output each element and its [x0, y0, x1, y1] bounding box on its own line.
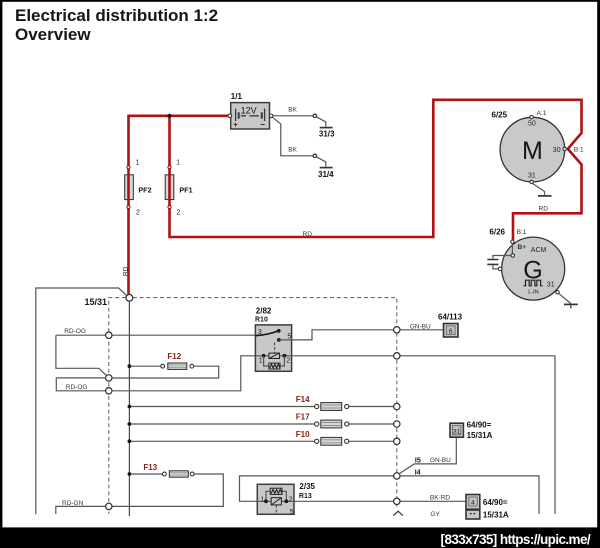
wire BK-RD (relay 2/35 pin 2 to connector 4) [294, 500, 466, 502]
fuse F13 [112, 463, 223, 506]
svg-text:PF1: PF1 [179, 185, 192, 194]
dashed border right [133, 298, 397, 509]
fuse PF1 body [165, 175, 174, 200]
svg-text:[833x735] https://upic.me/: [833x735] https://upic.me/ [441, 532, 591, 547]
svg-text:I4: I4 [415, 469, 421, 476]
dashed-line continuation chevron [393, 511, 402, 515]
svg-text:M: M [522, 137, 543, 165]
svg-text:1: 1 [260, 497, 264, 504]
svg-text:64/113: 64/113 [438, 312, 463, 321]
svg-text:50: 50 [528, 121, 536, 128]
connector circle RD-OG upper [106, 332, 112, 338]
svg-text:6: 6 [449, 328, 453, 335]
svg-text:2: 2 [289, 497, 293, 504]
connector circle B [106, 388, 112, 394]
svg-text:1/1: 1/1 [231, 92, 243, 101]
switch contact 31/4 [313, 154, 316, 157]
svg-text:1: 1 [136, 160, 140, 167]
wire main distribution rail (from node 15/31 down) [128, 301, 130, 516]
frame left [0, 0, 2, 528]
wire left rail [36, 288, 127, 514]
svg-text:BK-RD: BK-RD [430, 494, 451, 501]
svg-text:2: 2 [136, 210, 140, 217]
ground 31/4 [320, 167, 333, 169]
switch contact 31/3 [313, 114, 316, 117]
motor 6/25 [492, 110, 585, 183]
svg-text:2/82: 2/82 [256, 307, 272, 316]
svg-text:31/4: 31/4 [318, 170, 334, 179]
wire relay 2/82 pin 5 to connector 64/113 (GN-BU) [279, 330, 444, 340]
connector 64/113 pin 6 [438, 312, 463, 337]
fuse F17 [127, 413, 399, 428]
bottom watermark bar [0, 527, 600, 548]
fuse PF1 [168, 160, 193, 217]
svg-text:B:1: B:1 [574, 147, 584, 154]
connector circle I4 [394, 473, 400, 479]
svg-text:2: 2 [177, 210, 181, 217]
junction battery feed split [167, 114, 171, 118]
svg-text:Overview: Overview [15, 25, 91, 44]
svg-text:RD-OG: RD-OG [66, 384, 88, 391]
generator 6/26 [489, 228, 564, 300]
dashed border left (central electronic module boundary) [109, 298, 126, 514]
svg-text:RD: RD [539, 205, 549, 212]
svg-text:30: 30 [553, 147, 561, 154]
ground 31/3 [320, 127, 333, 129]
wire RD-OG (to relay 2/82 pin 3) [56, 334, 256, 336]
connector circle RD-GN [106, 503, 112, 509]
svg-text:R10: R10 [255, 317, 268, 324]
svg-text:L-IN: L-IN [528, 290, 538, 296]
svg-text:B:1: B:1 [517, 229, 527, 236]
svg-text:F14: F14 [296, 395, 310, 404]
svg-text:B+: B+ [518, 244, 527, 251]
svg-text:ACM: ACM [531, 247, 547, 254]
wire RD battery feed (left branch to node 15/31) [129, 116, 230, 295]
svg-text:R13: R13 [299, 493, 312, 500]
wire loop (outside module, lower RD-OG) [56, 378, 105, 391]
frame top [0, 0, 600, 2]
connector circle BK-RD [394, 498, 400, 504]
svg-text:15/31: 15/31 [85, 297, 108, 307]
svg-text:1: 1 [176, 160, 180, 167]
node 15/31 [126, 294, 133, 301]
connector circle on pin 2 feed [394, 353, 400, 359]
svg-text:64/90=: 64/90= [483, 498, 508, 507]
fuse F12 [112, 352, 219, 378]
ground at motor pin 31 [533, 184, 545, 195]
svg-text:2/35: 2/35 [299, 482, 315, 491]
connector circle A [106, 375, 112, 381]
svg-text:Electrical distribution 1:2: Electrical distribution 1:2 [15, 6, 218, 25]
svg-text:2: 2 [286, 358, 290, 365]
battery 1/1 [228, 92, 273, 129]
connector 64/90= 15/31A pin 31 [450, 421, 493, 440]
svg-text:RD-OG: RD-OG [64, 328, 86, 335]
title [15, 6, 218, 44]
svg-text:+: + [233, 120, 238, 129]
svg-text:F12: F12 [167, 352, 181, 361]
svg-text:GN-BU: GN-BU [410, 323, 431, 330]
fuse PF2 [127, 160, 152, 217]
svg-text:31/3: 31/3 [319, 129, 335, 138]
wire I4 continuation right [400, 476, 539, 514]
svg-text:15/31A: 15/31A [483, 511, 509, 520]
wire I4 row (to relay 2/35 coil) [240, 476, 394, 501]
wire BK (battery to ground 31/3) [273, 115, 313, 117]
svg-text:RD: RD [303, 231, 313, 238]
svg-text:5: 5 [290, 509, 294, 516]
wire BK (battery to ground 31/4) [273, 117, 314, 156]
svg-text:BK: BK [288, 106, 297, 113]
svg-text:BK: BK [288, 147, 297, 154]
svg-text:I5: I5 [415, 457, 421, 464]
fuse F10 [127, 430, 399, 445]
svg-text:12V: 12V [241, 106, 257, 116]
fuse F14 [127, 395, 399, 410]
svg-text:6/25: 6/25 [492, 111, 508, 120]
svg-text:31: 31 [453, 428, 461, 435]
svg-text:6/26: 6/26 [489, 228, 505, 237]
fuse PF2 body [125, 175, 134, 200]
svg-text:64/90=: 64/90= [467, 421, 492, 430]
svg-text:RD: RD [123, 266, 130, 276]
connector circle GN-BU [394, 327, 400, 333]
wire I5 GN-BU to connector 31 [399, 437, 456, 473]
svg-text:31: 31 [547, 282, 555, 289]
wire loop (outside module, upper RD-OG) [56, 335, 107, 376]
relay 2/82 R10 [255, 307, 292, 372]
svg-text:A:1: A:1 [537, 110, 547, 117]
svg-text:F17: F17 [296, 413, 310, 422]
wire circle B to relay 2/82 coil pin 1 [112, 356, 255, 391]
svg-text:GN-BU: GN-BU [430, 457, 451, 464]
wire relay 2/82 pin 2 feed out [292, 356, 555, 514]
svg-text:F10: F10 [296, 430, 310, 439]
ground at generator pin 31 [556, 291, 559, 294]
connector 64/90= 15/31A pin 4 [466, 495, 509, 520]
svg-text:F13: F13 [143, 463, 157, 472]
svg-text:PF2: PF2 [138, 185, 151, 194]
frame right [597, 0, 600, 528]
svg-text:1: 1 [259, 358, 263, 365]
svg-text:−: − [260, 120, 265, 129]
capacitor (noise suppressor at generator B+) [487, 256, 511, 271]
svg-text:4: 4 [471, 499, 475, 506]
svg-text:31: 31 [528, 172, 536, 179]
svg-text:15/31A: 15/31A [467, 431, 493, 440]
relay 2/35 R13 [257, 482, 315, 516]
svg-text:GY: GY [430, 511, 440, 518]
wire RD main loop (PF1 to starter motor and generator) [170, 100, 582, 240]
